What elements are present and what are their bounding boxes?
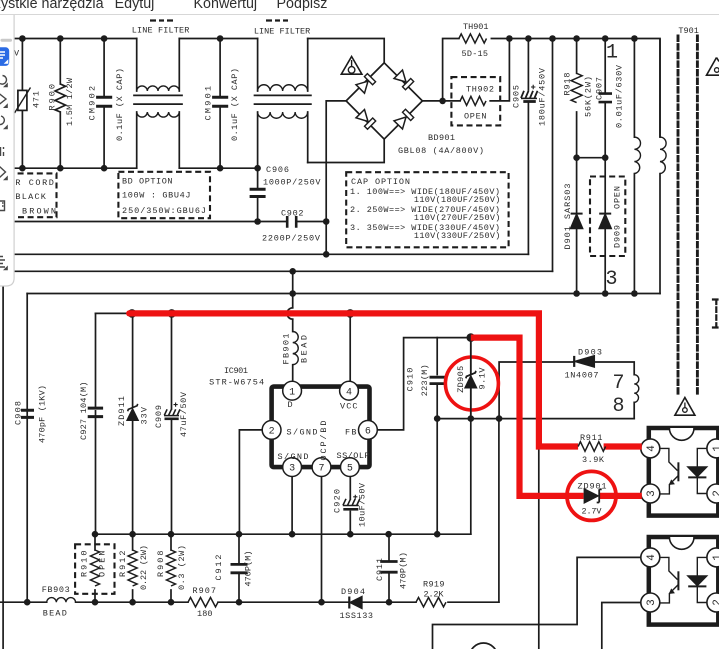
svg-text:BEAD: BEAD <box>300 335 310 363</box>
svg-text:BD901: BD901 <box>428 133 455 143</box>
svg-text:CAP OPTION: CAP OPTION <box>351 177 410 187</box>
svg-text:C906: C906 <box>266 165 289 175</box>
svg-text:T901: T901 <box>678 26 699 36</box>
svg-text:1: 1 <box>606 42 618 65</box>
svg-text:100W : GBU4J: 100W : GBU4J <box>122 191 191 201</box>
svg-text:5: 5 <box>347 464 353 475</box>
svg-text:0.1uF (X CAP): 0.1uF (X CAP) <box>230 68 240 141</box>
svg-text:7: 7 <box>318 464 324 475</box>
svg-text:47uF/50V: 47uF/50V <box>179 391 189 437</box>
svg-text:C908: C908 <box>14 401 24 425</box>
svg-text:2.2K: 2.2K <box>424 590 445 600</box>
svg-text:R908: R908 <box>156 551 166 578</box>
svg-text:S/GND: S/GND <box>287 427 318 437</box>
svg-text:C920: C920 <box>333 489 343 513</box>
svg-text:1000P/250V: 1000P/250V <box>263 178 321 188</box>
svg-text:110V(270UF/250V): 110V(270UF/250V) <box>414 213 501 223</box>
svg-text:9.1V: 9.1V <box>477 367 487 390</box>
svg-text:BD OPTION: BD OPTION <box>122 177 173 187</box>
svg-text:V: V <box>14 49 20 59</box>
svg-text:223(M): 223(M) <box>420 364 430 396</box>
svg-text:0.22 (2W): 0.22 (2W) <box>139 545 149 590</box>
svg-text:STR-W6754: STR-W6754 <box>209 377 264 387</box>
svg-text:GBL08 (4A/800V): GBL08 (4A/800V) <box>398 146 484 156</box>
svg-text:1.5M 1/2W: 1.5M 1/2W <box>65 77 75 126</box>
svg-text:D903: D903 <box>578 347 602 357</box>
svg-text:33V: 33V <box>140 406 150 424</box>
svg-text:OPEN: OPEN <box>464 112 487 122</box>
svg-text:TH902: TH902 <box>466 85 494 95</box>
svg-text:7: 7 <box>613 372 625 395</box>
svg-text:CM901: CM901 <box>204 86 214 121</box>
svg-text:R907: R907 <box>193 586 217 596</box>
svg-text:R CORD: R CORD <box>15 178 54 188</box>
svg-text:C911: C911 <box>375 558 385 581</box>
svg-text:BLACK: BLACK <box>15 192 46 202</box>
svg-text:C927 104(M): C927 104(M) <box>79 382 89 441</box>
svg-text:180: 180 <box>197 609 213 619</box>
svg-text:1: 1 <box>712 554 719 561</box>
svg-text:471: 471 <box>32 91 42 108</box>
svg-text:1SS133: 1SS133 <box>340 611 374 621</box>
svg-text:2: 2 <box>712 599 719 606</box>
svg-text:D909: D909 <box>613 225 623 248</box>
svg-text:3.9K: 3.9K <box>582 455 605 465</box>
svg-text:OPEN: OPEN <box>613 186 623 209</box>
svg-text:3: 3 <box>646 599 658 606</box>
svg-text:C905: C905 <box>511 85 521 108</box>
svg-text:470P(M): 470P(M) <box>399 552 409 589</box>
svg-text:6: 6 <box>365 427 371 438</box>
svg-text:R910: R910 <box>80 551 90 578</box>
svg-text:ZD905: ZD905 <box>456 366 466 393</box>
svg-text:2.7V: 2.7V <box>582 507 603 517</box>
svg-text:250/350W:GBU6J: 250/350W:GBU6J <box>122 206 206 216</box>
svg-text:ZD911: ZD911 <box>117 396 127 426</box>
svg-text:180uF/450V: 180uF/450V <box>537 67 547 126</box>
svg-text:LINE FILTER: LINE FILTER <box>132 26 190 36</box>
svg-text:FB: FB <box>345 427 357 437</box>
svg-text:C909: C909 <box>154 405 164 428</box>
svg-text:470P(M): 470P(M) <box>244 551 254 587</box>
svg-text:FB901: FB901 <box>282 334 292 365</box>
svg-text:3: 3 <box>646 490 658 497</box>
svg-text:C907: C907 <box>595 77 605 100</box>
svg-text:TH901: TH901 <box>463 22 489 32</box>
svg-text:110V(180UF/250V): 110V(180UF/250V) <box>414 195 501 205</box>
svg-text:5D-15: 5D-15 <box>462 49 489 59</box>
svg-text:zystkie narzędzia: zystkie narzędzia <box>0 0 104 12</box>
svg-text:OPEN: OPEN <box>97 551 107 578</box>
svg-text:4: 4 <box>646 445 658 452</box>
svg-text:BROWN: BROWN <box>22 207 56 217</box>
svg-text:Podpisz: Podpisz <box>277 0 328 12</box>
svg-text:VCC: VCC <box>340 401 358 411</box>
svg-text:1: 1 <box>289 387 295 398</box>
svg-text:0.3 (2W): 0.3 (2W) <box>177 545 187 590</box>
svg-text:FB903: FB903 <box>42 585 70 595</box>
svg-text:ZD901: ZD901 <box>578 482 607 492</box>
svg-text:4: 4 <box>346 387 352 398</box>
svg-text:CM902: CM902 <box>88 86 98 121</box>
svg-text:C912: C912 <box>214 555 224 581</box>
svg-text:BEAD: BEAD <box>43 609 67 619</box>
svg-text:2200P/250V: 2200P/250V <box>262 234 321 244</box>
svg-text:R912: R912 <box>118 551 128 578</box>
svg-text:56K(2W): 56K(2W) <box>584 76 594 117</box>
svg-text:2: 2 <box>712 490 719 497</box>
svg-text:10uF/50V: 10uF/50V <box>358 482 368 527</box>
svg-text:0.01uF/630V: 0.01uF/630V <box>615 64 625 128</box>
svg-text:SS/OLP: SS/OLP <box>337 451 370 461</box>
svg-text:R900: R900 <box>48 84 58 111</box>
svg-text:IC901: IC901 <box>224 366 248 376</box>
svg-text:3: 3 <box>289 464 295 475</box>
svg-text:D904: D904 <box>341 587 365 597</box>
svg-text:1: 1 <box>712 445 719 452</box>
svg-text:470pF (1KV): 470pF (1KV) <box>37 385 47 443</box>
svg-text:C902: C902 <box>281 209 304 219</box>
svg-text:LINE FILTER: LINE FILTER <box>254 27 310 37</box>
svg-text:Edytuj: Edytuj <box>115 0 155 12</box>
svg-text:110V(330UF/250V): 110V(330UF/250V) <box>414 231 501 241</box>
svg-text:C910: C910 <box>406 368 416 392</box>
svg-text:8: 8 <box>613 395 625 418</box>
svg-text:OCP/BD: OCP/BD <box>319 421 329 461</box>
svg-text:2: 2 <box>269 427 275 438</box>
svg-text:3: 3 <box>606 268 618 291</box>
svg-text:S/GND: S/GND <box>278 452 309 462</box>
svg-text:1N4007: 1N4007 <box>565 371 599 381</box>
svg-text:Konwertuj: Konwertuj <box>194 0 258 12</box>
svg-text:0.1uF (X CAP): 0.1uF (X CAP) <box>115 68 125 141</box>
svg-text:D: D <box>288 400 293 410</box>
svg-text:D901 SARS03: D901 SARS03 <box>563 184 573 250</box>
svg-text:R919: R919 <box>423 580 445 590</box>
svg-text:4: 4 <box>646 554 658 561</box>
svg-text:R918: R918 <box>563 73 573 96</box>
